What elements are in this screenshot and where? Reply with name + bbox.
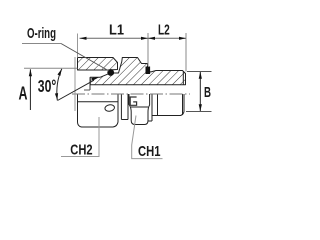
svg-text:A: A <box>19 84 28 104</box>
svg-text:CH1: CH1 <box>138 143 161 160</box>
svg-text:B: B <box>204 84 211 101</box>
svg-text:L1: L1 <box>109 21 124 38</box>
svg-text:30°: 30° <box>38 76 57 96</box>
svg-text:L2: L2 <box>158 22 170 39</box>
svg-text:CH2: CH2 <box>70 142 92 159</box>
svg-text:O-ring: O-ring <box>27 25 56 42</box>
